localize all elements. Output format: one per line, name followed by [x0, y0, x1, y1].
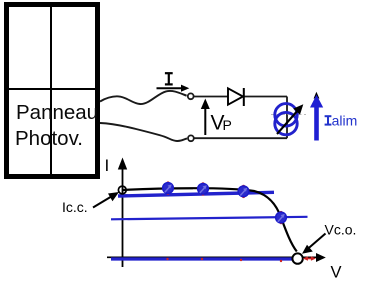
wire bottom wavy from panel: [100, 123, 187, 141]
I-V curve: [123, 188, 297, 251]
middle blue line: [111, 217, 308, 220]
meter arrow: [277, 109, 299, 134]
x-axis arrowhead V: [316, 253, 326, 262]
x-axis black: [107, 256, 316, 258]
red range arrow: [305, 258, 314, 260]
panel divider vertical: [50, 7, 52, 174]
svg-text:I: I: [105, 156, 110, 175]
svg-text:alim: alim: [332, 113, 358, 129]
marker 4: [276, 211, 287, 224]
wire right vertical: [286, 97, 288, 139]
svg-text:Panneau: Panneau: [16, 101, 98, 124]
label I: [165, 73, 173, 84]
wire top wavy from panel: [100, 91, 187, 104]
black tip behind Ialim arrow: [314, 92, 320, 99]
marker 2: [198, 182, 209, 195]
x-axis blue line: [111, 257, 296, 260]
Icc arrow: [93, 196, 113, 208]
svg-text:Photov.: Photov.: [15, 127, 83, 150]
red tick mark 2 on V axis: [201, 258, 203, 260]
Icc point: [118, 186, 126, 194]
marker 1: [163, 181, 174, 194]
panel divider horizontal: [9, 88, 95, 90]
voltage VP arrow: [204, 103, 206, 135]
current I arrow: [157, 87, 186, 89]
red tick mark 3 on V axis: [240, 259, 242, 261]
svg-text:Ic.c.: Ic.c.: [62, 199, 88, 215]
red tick mark 4 on V axis: [280, 260, 282, 262]
switch terminal top: [188, 93, 194, 99]
marker 3: [238, 185, 249, 198]
svg-text:V: V: [331, 264, 342, 282]
svg-text:Vc.o.: Vc.o.: [325, 222, 357, 238]
red tick mark 1 on V axis: [166, 258, 168, 260]
wire bottom horizontal: [194, 137, 287, 139]
wire top horizontal: [193, 96, 287, 98]
Vco arrow: [307, 234, 326, 250]
variable source symbol (two circles): [275, 104, 297, 126]
bottom terminal: [188, 135, 194, 141]
meter guide dashes: [271, 114, 306, 116]
label Ialim: [325, 116, 332, 124]
svg-text:P: P: [223, 117, 232, 133]
y-axis: [122, 167, 124, 267]
Vco point: [292, 253, 302, 263]
Ialim arrow (blue): [314, 106, 319, 141]
panel PV frame: [7, 5, 98, 177]
diode D1: [228, 88, 243, 104]
top blue line: [118, 192, 274, 196]
